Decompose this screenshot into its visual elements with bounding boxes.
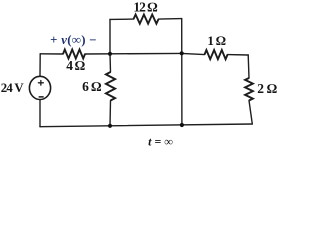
node dot center middle	[108, 52, 112, 56]
wire left vertical top	[39, 54, 41, 77]
wire right vertical bottom	[249, 101, 252, 125]
svg-text:2 Ω: 2 Ω	[257, 81, 278, 96]
svg-text:24 V: 24 V	[1, 81, 25, 95]
wire middle row center	[85, 52, 182, 55]
voltage source minus sign	[39, 96, 43, 98]
resistor 1 ohm	[205, 50, 228, 59]
wire 6-ohm branch top	[109, 54, 112, 72]
wire bottom	[40, 124, 252, 127]
node dot center bottom	[108, 124, 112, 128]
wire middle row left	[40, 53, 63, 55]
wire 12-ohm loop left vertical	[109, 19, 111, 53]
resistor 4 ohm	[63, 50, 85, 59]
node dot right middle	[180, 51, 184, 55]
voltage source plus sign	[38, 81, 43, 86]
voltage source V1 circle	[29, 76, 50, 99]
svg-text:1 Ω: 1 Ω	[207, 33, 226, 48]
wire middle row right	[182, 53, 205, 54]
node dot right bottom	[180, 123, 184, 127]
svg-text:4 Ω: 4 Ω	[66, 58, 86, 73]
svg-text:6 Ω: 6 Ω	[82, 79, 102, 94]
wire right vertical top	[247, 55, 250, 78]
resistor 2 ohm	[245, 78, 253, 101]
wire 1-ohm to right corner	[228, 54, 249, 56]
resistor 12 ohm	[134, 15, 159, 24]
wire 12-ohm loop top right	[159, 18, 182, 21]
wire right-middle vertical	[181, 19, 183, 125]
wire 6-ohm branch bottom	[109, 101, 112, 126]
svg-text:12 Ω: 12 Ω	[133, 0, 158, 14]
svg-text:+ v(∞) −: + v(∞) −	[50, 33, 97, 47]
svg-text:t = ∞: t = ∞	[148, 135, 173, 149]
resistor 6 ohm	[106, 72, 115, 101]
wire left vertical bottom	[39, 100, 41, 127]
wire 12-ohm loop top left	[110, 18, 134, 20]
